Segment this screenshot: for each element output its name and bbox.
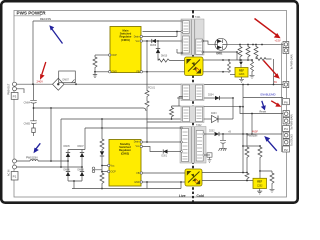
svg-text:P3: P3 [13,95,17,99]
connector pins stack [283,111,290,153]
svg-text:FB: FB [136,71,139,74]
bottom live rail [72,182,181,189]
ground REF [239,77,244,82]
node REC15N dot [192,10,194,12]
svg-text:To PWB-MAIN: To PWB-MAIN [291,114,294,130]
svg-text:To SOUND: To SOUND [291,134,294,146]
box relay DM07 [59,71,76,83]
wire y171 to right resistor [260,171,272,173]
resistor R gnd [251,60,254,73]
vertical secondary bus [242,85,244,173]
svg-text:DM07: DM07 [78,146,85,148]
svg-text:CM05: CM05 [24,123,31,126]
svg-text:DM09: DM09 [150,45,157,47]
wire opto1 right top [202,59,205,61]
svg-text:To PWB-GAIN: To PWB-GAIN [291,54,294,70]
svg-text:240V: 240V [37,80,44,84]
wire enable [243,97,283,99]
svg-text:DM07: DM07 [63,78,70,81]
winding secondary [196,39,203,55]
wire opto1 right bottom [203,71,223,73]
outer photo border [1,1,298,203]
main rail to T2a [177,97,183,99]
svg-text:OCP: OCP [111,171,117,174]
svg-text:DM06: DM06 [64,169,71,171]
diode y99 [215,96,220,100]
svg-text:ENABLE/MD: ENABLE/MD [261,93,276,97]
resistor chain a [245,134,249,173]
ground OCP [93,72,97,78]
winding primary lower [183,36,190,53]
transformer T201 [181,16,204,55]
svg-text:T201: T201 [195,16,201,19]
MOSFET QM02 [215,38,227,50]
svg-text:D202: D202 [209,130,215,132]
wire drain to transformer [143,32,183,37]
resistor FB [145,91,184,123]
wire AC line2 [17,166,83,168]
svg-text:+15V: +15V [275,39,281,43]
IC U2 standby regulator CN02 [108,140,143,187]
svg-text:CM04: CM04 [24,101,31,104]
secondary gnd rail [204,84,284,86]
winding pin circles [181,127,183,129]
arrow blue enable [261,101,266,111]
wire secondary lower tap [202,52,237,60]
optocoupler PC01 [185,57,204,76]
wire secondary to mosfet [202,41,215,44]
wire opto2 right top [202,172,247,174]
arrow blue pws05n [264,136,277,151]
optocoupler PC02 [185,169,202,186]
connector P3 PWB-OUT [11,82,18,99]
wire AC line1 [17,160,69,162]
svg-text:T202: T202 [196,124,202,127]
isolation barrier dashed line Live/Cold [192,11,194,202]
arrow red p6 [271,101,281,107]
standby feed chain [101,119,103,139]
diode into REF [240,60,242,62]
wire y60 bus [204,59,254,61]
IC U1 main switched regulator CM01 [109,27,143,74]
svg-text:P1: P1 [13,175,17,179]
wire T2a out y98 [203,97,233,99]
drive transformer T2b [181,106,204,123]
wire REF left [230,74,235,76]
wire T202 tap top [146,122,148,142]
capacitor CM04 chain [30,84,37,136]
svg-text:D301: D301 [162,155,168,157]
winding lower tap [204,154,210,156]
resistor feed [100,139,104,151]
svg-text:P2: P2 [284,148,288,152]
wire IC2 drain to T202 [143,141,181,143]
arrow blue pws115n [34,143,41,153]
ground cap chassis [219,148,227,151]
wire rail B [61,119,181,167]
connector strip line [280,43,282,152]
resistor opto1 in [158,59,185,62]
bridge wiring [68,128,85,189]
connector P6 [283,99,290,105]
svg-text:PC101: PC101 [148,88,156,90]
svg-text:C203: C203 [239,74,245,76]
svg-text:P4: P4 [284,127,288,131]
wire REC15N net [33,21,182,84]
schematic frame [14,11,287,198]
winding primary upper [183,21,190,34]
resistor horizontal [256,58,272,61]
resistor chain b [258,146,262,171]
pin circles [109,35,143,73]
svg-text:REC15N: REC15N [40,17,51,21]
wire IC2 pin2 to T202 with diode [143,147,163,152]
wire rail C [85,127,182,129]
svg-text:PWS POWER: PWS POWER [17,11,47,16]
bridge diode DM05 [66,152,70,157]
svg-text:(CM01): (CM01) [121,38,130,42]
wire opto1 left bottom [147,71,185,73]
resistor feed2 [100,173,104,189]
connector P1 AC IN [11,159,18,180]
svg-text:DM08: DM08 [78,169,85,171]
diode feed [100,151,104,156]
wire into REF2 [259,171,261,178]
svg-text:PWS05N: PWS05N [247,135,257,138]
diode D301 [163,149,167,153]
transformer T202 [180,124,206,163]
svg-text:DM05: DM05 [64,146,71,148]
title PWS POWER [14,11,46,16]
resistor opto pull [228,62,231,73]
wire reset [240,107,283,114]
wire mosfet to +15V rail [227,43,283,45]
snubber diode DM10 [157,41,159,48]
svg-text:PWB-OUT: PWB-OUT [7,83,10,95]
wire opto2 right bottom [202,180,253,182]
wire main DC rail 240V [17,83,183,85]
capacitor out [220,134,226,148]
wire feedback y108 [34,108,147,111]
svg-text:6V: 6V [274,81,277,84]
svg-text:REF: REF [239,70,244,73]
resistor R +15V b [246,45,250,60]
resistor chain a2 [245,173,249,181]
wire T1 lower tap [177,49,183,53]
bridge diode DM07 [80,152,84,157]
svg-text:D203: D203 [211,113,217,115]
arrow red 6V [264,61,280,79]
connector 6V pin [283,81,289,87]
svg-text:4V5F: 4V5F [252,131,258,134]
svg-text:AC IN: AC IN [7,169,10,176]
wire IC2 fb [143,172,186,174]
resistor vertical third [254,45,258,60]
wire GND pin [95,71,109,73]
wire Vcc pin with diode [143,40,183,42]
svg-text:DM11: DM11 [217,54,224,56]
wire P3 pin2 stub [17,89,25,93]
svg-text:Reset: Reset [260,110,267,113]
resistor RM ocp [93,55,97,72]
svg-text:Cold: Cold [197,194,204,198]
bridge diode DM06 [66,171,70,176]
svg-text:Drain: Drain [134,35,140,38]
svg-text:P6: P6 [284,100,288,104]
arrow blue to REC15N [49,25,62,43]
svg-text:PWS115N: PWS115N [26,156,38,159]
REF regulator C203 [235,68,248,78]
svg-text:DM10: DM10 [161,56,168,58]
wire OCP pin [95,54,109,56]
node junction [32,83,34,85]
svg-text:GND: GND [134,181,140,184]
resistor right low [270,173,274,187]
svg-text:OCP: OCP [112,54,118,57]
ground REF2 [257,189,262,195]
arrow red to 240V [40,62,46,80]
svg-text:(CN02): (CN02) [121,151,129,155]
diode D203 [204,118,211,120]
connector +15V pins [283,42,289,54]
bridge diode DM08 [80,171,84,176]
wire down to AVR pin [273,59,275,85]
surge diamond DM02 [53,78,65,90]
wire T2b right top [204,106,243,108]
svg-text:REF: REF [257,181,262,184]
wire FB chain [143,41,148,91]
drive transformer T2a [181,84,204,101]
resistor R +15V a [238,45,242,60]
svg-text:D204: D204 [208,94,214,96]
wire +B diode D202 [204,133,214,135]
diode DM09 [152,39,156,43]
svg-text:+B: +B [228,132,231,134]
wire IC2 gnd [143,182,186,189]
fuse PWS115N [30,160,38,161]
svg-text:GND: GND [112,71,118,74]
wire rail A down [50,108,52,161]
crystal symbol [92,167,102,173]
wire pws05n [251,114,253,135]
ground resistor right [270,187,275,192]
svg-text:Drain: Drain [134,141,140,144]
svg-text:Live: Live [179,194,186,198]
ground R [250,73,255,78]
resistor mid [170,106,174,119]
svg-text:FB: FB [136,172,139,175]
svg-text:C202: C202 [257,185,263,187]
REF regulator C202 [253,178,267,188]
arrow red +15V [255,19,281,39]
wire vcc/ocp IC2 [102,166,108,172]
